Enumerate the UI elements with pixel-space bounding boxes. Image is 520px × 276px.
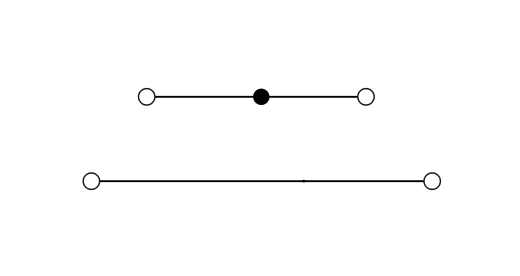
terminal (top-right open circle) (358, 89, 374, 105)
terminal (bottom-left open circle) (83, 173, 99, 189)
wire (top net) (147, 96, 366, 98)
junction (filled dot on top wire) (253, 89, 269, 105)
wire (bottom net) (91, 180, 432, 182)
terminal (top-left open circle) (139, 89, 155, 105)
terminal (bottom-right open circle) (424, 173, 440, 189)
junction (tiny segment joint on bottom wire) (302, 180, 306, 183)
